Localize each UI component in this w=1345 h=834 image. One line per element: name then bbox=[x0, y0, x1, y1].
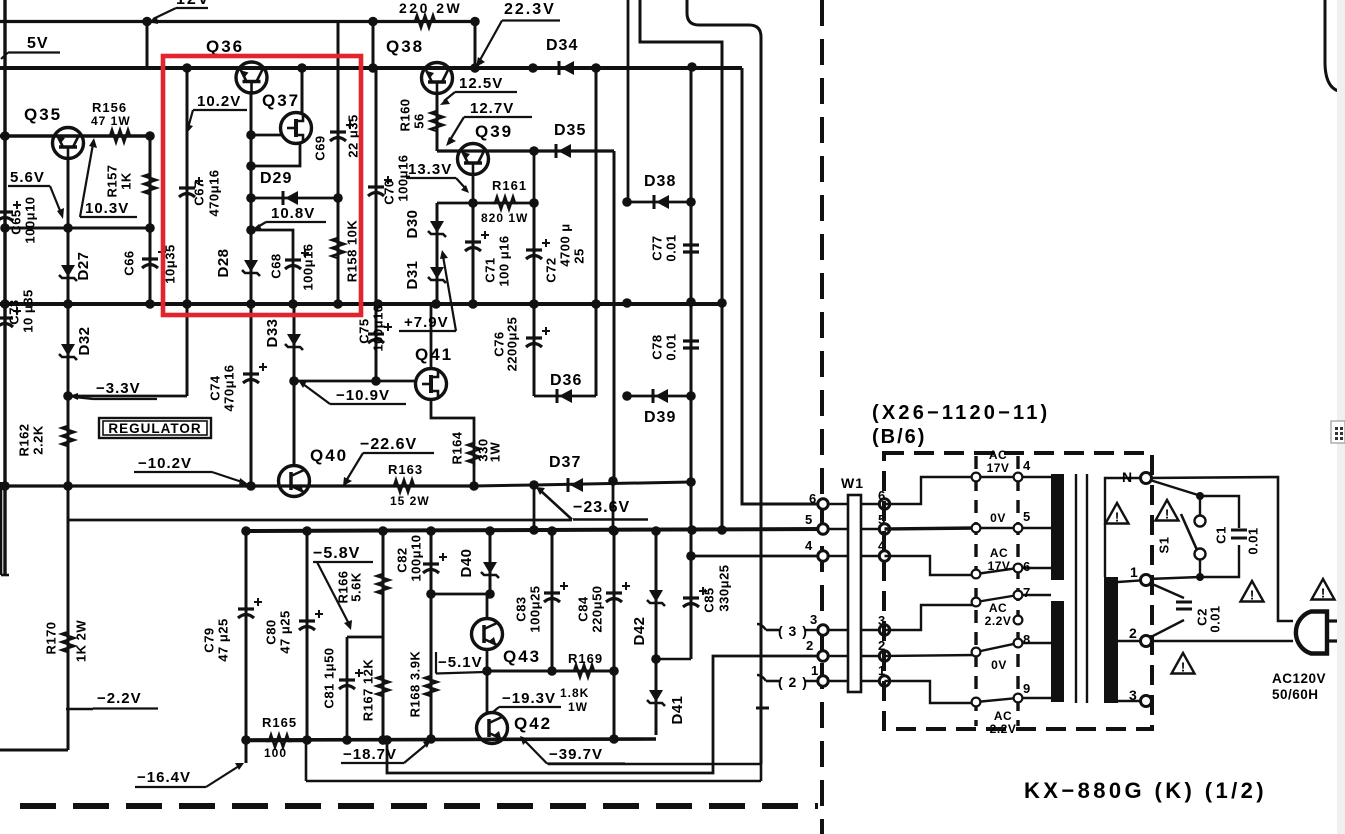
svg-text:D27: D27 bbox=[75, 251, 92, 280]
svg-text:Q40: Q40 bbox=[310, 446, 348, 465]
svg-text:0V: 0V bbox=[991, 658, 1007, 672]
svg-text:6: 6 bbox=[1023, 559, 1031, 574]
svg-text:4: 4 bbox=[1023, 458, 1031, 473]
svg-text:−23.6V: −23.6V bbox=[573, 499, 630, 516]
svg-text:0.01: 0.01 bbox=[1207, 605, 1222, 632]
svg-text:!: ! bbox=[1321, 586, 1325, 601]
svg-text:5: 5 bbox=[1023, 509, 1031, 524]
svg-text:AC: AC bbox=[994, 709, 1012, 723]
svg-text:6: 6 bbox=[809, 491, 817, 506]
svg-text:1W: 1W bbox=[568, 700, 588, 714]
svg-text:S1: S1 bbox=[1156, 537, 1171, 554]
svg-text:Q38: Q38 bbox=[386, 37, 424, 56]
svg-text:100μ16: 100μ16 bbox=[370, 304, 385, 351]
svg-text:10.8V: 10.8V bbox=[271, 205, 315, 222]
svg-text:2.2V: 2.2V bbox=[990, 722, 1017, 736]
svg-text:5.6V: 5.6V bbox=[10, 169, 45, 186]
svg-text:1K: 1K bbox=[118, 172, 133, 190]
svg-text:C70: C70 bbox=[381, 179, 396, 204]
svg-text:0.01: 0.01 bbox=[663, 234, 678, 261]
svg-text:C80: C80 bbox=[263, 619, 278, 644]
svg-text:C78: C78 bbox=[649, 334, 664, 359]
svg-text:220 2W: 220 2W bbox=[399, 0, 462, 16]
svg-text:(B/6): (B/6) bbox=[872, 426, 926, 448]
svg-text:R165: R165 bbox=[262, 715, 297, 730]
svg-text:C65: C65 bbox=[8, 209, 23, 234]
svg-text:−10.2V: −10.2V bbox=[138, 455, 192, 472]
svg-text:10.3V: 10.3V bbox=[85, 200, 129, 217]
svg-text:Q36: Q36 bbox=[206, 37, 244, 56]
svg-text:4700 μ: 4700 μ bbox=[557, 223, 572, 267]
svg-text:22.3V: 22.3V bbox=[504, 1, 556, 18]
svg-text:1K 2W: 1K 2W bbox=[73, 620, 88, 662]
svg-text:AC: AC bbox=[989, 448, 1007, 462]
svg-text:( 2 ): ( 2 ) bbox=[778, 674, 808, 690]
svg-text:R158 10K: R158 10K bbox=[344, 220, 359, 283]
svg-text:D28: D28 bbox=[215, 248, 232, 277]
svg-text:C77: C77 bbox=[649, 235, 664, 260]
svg-text:D42: D42 bbox=[631, 616, 648, 645]
svg-text:0V: 0V bbox=[990, 511, 1006, 525]
svg-text:+7.9V: +7.9V bbox=[404, 314, 449, 331]
svg-text:C71: C71 bbox=[482, 257, 497, 282]
svg-text:REGULATOR: REGULATOR bbox=[108, 421, 201, 436]
svg-text:!: ! bbox=[1165, 507, 1169, 522]
svg-text:R160: R160 bbox=[397, 98, 412, 131]
svg-text:330μ25: 330μ25 bbox=[716, 564, 731, 611]
svg-text:−16.4V: −16.4V bbox=[137, 769, 191, 786]
svg-text:R170: R170 bbox=[43, 621, 58, 654]
svg-text:D39: D39 bbox=[644, 409, 676, 426]
svg-text:220μ50: 220μ50 bbox=[589, 585, 604, 632]
svg-text:AC120V: AC120V bbox=[1272, 671, 1326, 686]
svg-text:C69: C69 bbox=[312, 135, 327, 160]
svg-text:R167 12K: R167 12K bbox=[360, 659, 375, 722]
svg-text:Q43: Q43 bbox=[503, 647, 541, 666]
svg-text:100μ25: 100μ25 bbox=[527, 585, 542, 632]
svg-text:−3.3V: −3.3V bbox=[96, 380, 141, 397]
svg-text:100μ10: 100μ10 bbox=[408, 534, 423, 581]
svg-text:12.7V: 12.7V bbox=[470, 100, 514, 117]
svg-text:D38: D38 bbox=[644, 173, 676, 190]
svg-text:470μ16: 470μ16 bbox=[206, 169, 221, 216]
svg-text:1: 1 bbox=[1130, 564, 1138, 580]
svg-text:47 1W: 47 1W bbox=[91, 114, 131, 128]
svg-text:D40: D40 bbox=[458, 548, 475, 577]
svg-text:Q37: Q37 bbox=[262, 91, 300, 110]
svg-text:9: 9 bbox=[1023, 681, 1031, 696]
svg-text:D37: D37 bbox=[549, 454, 581, 471]
svg-text:Q42: Q42 bbox=[514, 714, 552, 733]
svg-text:1W: 1W bbox=[487, 442, 502, 463]
svg-text:Q39: Q39 bbox=[475, 122, 513, 141]
svg-text:2: 2 bbox=[806, 638, 814, 653]
svg-text:D30: D30 bbox=[404, 209, 421, 238]
svg-text:4: 4 bbox=[805, 538, 813, 553]
svg-text:5.6K: 5.6K bbox=[348, 572, 363, 602]
svg-text:(X26−1120−11): (X26−1120−11) bbox=[872, 402, 1050, 424]
svg-text:KX−880G (K) (1/2): KX−880G (K) (1/2) bbox=[1024, 778, 1267, 803]
svg-text:100: 100 bbox=[264, 746, 287, 760]
svg-text:15 2W: 15 2W bbox=[390, 494, 430, 508]
svg-text:12V: 12V bbox=[176, 0, 210, 8]
svg-text:Q41: Q41 bbox=[415, 345, 453, 364]
svg-text:D34: D34 bbox=[546, 37, 578, 54]
svg-text:AC: AC bbox=[990, 546, 1008, 560]
svg-text:5: 5 bbox=[805, 512, 813, 527]
svg-text:C85: C85 bbox=[701, 587, 716, 612]
svg-text:50/60H: 50/60H bbox=[1272, 687, 1319, 702]
svg-text:10 μ35: 10 μ35 bbox=[20, 289, 35, 333]
svg-text:470μ16: 470μ16 bbox=[221, 364, 236, 411]
svg-text:AC: AC bbox=[989, 601, 1007, 615]
svg-text:C1: C1 bbox=[1213, 526, 1228, 544]
svg-text:R156: R156 bbox=[92, 100, 127, 115]
svg-text:3: 3 bbox=[810, 612, 818, 627]
svg-text:−19.3V: −19.3V bbox=[502, 690, 556, 707]
svg-text:C84: C84 bbox=[575, 596, 590, 622]
svg-text:−39.7V: −39.7V bbox=[549, 746, 603, 763]
svg-text:!: ! bbox=[1181, 660, 1185, 675]
svg-text:1.8K: 1.8K bbox=[560, 686, 589, 700]
svg-text:R163: R163 bbox=[388, 462, 423, 477]
svg-text:D41: D41 bbox=[669, 695, 686, 724]
svg-text:8: 8 bbox=[1023, 632, 1031, 647]
svg-text:13.3V: 13.3V bbox=[408, 161, 452, 178]
svg-text:−5.8V: −5.8V bbox=[313, 545, 360, 562]
svg-text:56: 56 bbox=[411, 113, 426, 128]
svg-text:R162: R162 bbox=[16, 423, 31, 456]
svg-text:100μ16: 100μ16 bbox=[300, 243, 315, 290]
svg-text:C82: C82 bbox=[394, 547, 409, 572]
svg-text:2.2K: 2.2K bbox=[30, 425, 45, 455]
svg-text:−5.1V: −5.1V bbox=[438, 654, 483, 671]
svg-text:47 μ25: 47 μ25 bbox=[215, 618, 230, 662]
svg-text:0.01: 0.01 bbox=[1245, 527, 1260, 554]
svg-text:7: 7 bbox=[1023, 585, 1031, 600]
svg-text:47 μ25: 47 μ25 bbox=[277, 610, 292, 654]
svg-text:C81 1μ50: C81 1μ50 bbox=[321, 647, 336, 708]
svg-text:C73: C73 bbox=[6, 299, 21, 324]
svg-text:R168 3.9K: R168 3.9K bbox=[407, 651, 422, 718]
svg-text:17V: 17V bbox=[988, 559, 1011, 573]
svg-text:!: ! bbox=[1250, 588, 1254, 603]
svg-text:−2.2V: −2.2V bbox=[97, 690, 142, 707]
svg-text:R161: R161 bbox=[492, 178, 527, 193]
svg-text:D35: D35 bbox=[554, 122, 586, 139]
svg-text:W1: W1 bbox=[841, 475, 864, 491]
svg-text:R164: R164 bbox=[449, 431, 464, 464]
svg-text:C79: C79 bbox=[201, 627, 216, 652]
svg-text:22 μ35: 22 μ35 bbox=[345, 114, 360, 158]
svg-text:5V: 5V bbox=[27, 35, 49, 52]
svg-text:C75: C75 bbox=[356, 318, 371, 343]
svg-text:820 1W: 820 1W bbox=[481, 211, 528, 225]
svg-text:2.2V: 2.2V bbox=[985, 614, 1012, 628]
svg-text:17V: 17V bbox=[987, 461, 1010, 475]
svg-text:C72: C72 bbox=[543, 257, 558, 282]
svg-text:100 μ16: 100 μ16 bbox=[496, 235, 511, 286]
svg-text:−10.9V: −10.9V bbox=[336, 387, 390, 404]
svg-text:−18.7V: −18.7V bbox=[343, 746, 397, 763]
svg-text:D29: D29 bbox=[260, 170, 292, 187]
svg-text:12.5V: 12.5V bbox=[459, 75, 503, 92]
svg-text:D33: D33 bbox=[264, 318, 281, 347]
svg-text:R169: R169 bbox=[568, 651, 603, 666]
svg-text:100μ10: 100μ10 bbox=[22, 196, 37, 243]
svg-text:C67: C67 bbox=[191, 180, 206, 205]
svg-text:0.01: 0.01 bbox=[663, 333, 678, 360]
svg-text:Q35: Q35 bbox=[24, 105, 62, 124]
svg-text:1: 1 bbox=[811, 663, 819, 678]
svg-text:C74: C74 bbox=[207, 375, 222, 401]
svg-text:!: ! bbox=[1115, 510, 1119, 525]
svg-text:R157: R157 bbox=[104, 164, 119, 197]
svg-text:C68: C68 bbox=[268, 253, 283, 278]
svg-text:D36: D36 bbox=[550, 372, 582, 389]
svg-text:2: 2 bbox=[1129, 625, 1137, 641]
svg-text:−22.6V: −22.6V bbox=[360, 436, 417, 453]
svg-text:C66: C66 bbox=[121, 250, 136, 275]
svg-text:D31: D31 bbox=[404, 260, 421, 289]
svg-text:10.2V: 10.2V bbox=[197, 93, 241, 110]
svg-text:D32: D32 bbox=[76, 326, 93, 355]
svg-text:N: N bbox=[1122, 469, 1133, 485]
svg-text:100μ16: 100μ16 bbox=[395, 154, 410, 201]
svg-text:3: 3 bbox=[1129, 687, 1137, 703]
svg-text:25: 25 bbox=[571, 248, 586, 263]
svg-text:2200μ25: 2200μ25 bbox=[504, 317, 519, 372]
svg-text:C83: C83 bbox=[513, 596, 528, 621]
svg-text:( 3 ): ( 3 ) bbox=[778, 623, 808, 639]
